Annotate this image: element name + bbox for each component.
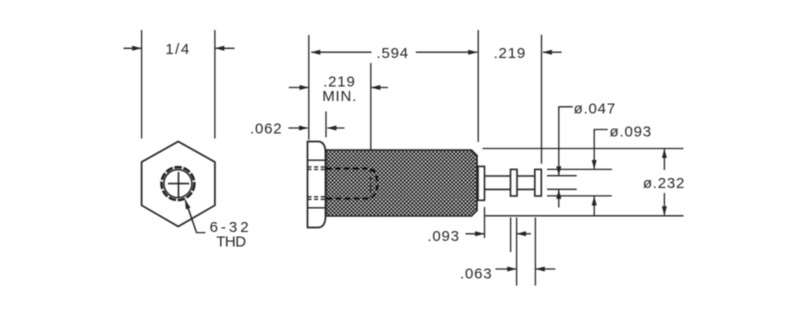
- svg-text:MIN.: MIN.: [322, 88, 357, 105]
- svg-text:ø.232: ø.232: [643, 175, 685, 192]
- svg-text:.219: .219: [494, 45, 526, 62]
- svg-text:1/4: 1/4: [165, 41, 190, 58]
- svg-text:ø.047: ø.047: [574, 101, 616, 118]
- svg-text:.062: .062: [250, 121, 282, 138]
- svg-text:.093: .093: [427, 228, 459, 245]
- svg-text:THD: THD: [216, 233, 246, 250]
- svg-text:ø.093: ø.093: [610, 124, 652, 141]
- svg-text:.063: .063: [460, 266, 492, 283]
- svg-text:.594: .594: [376, 45, 408, 62]
